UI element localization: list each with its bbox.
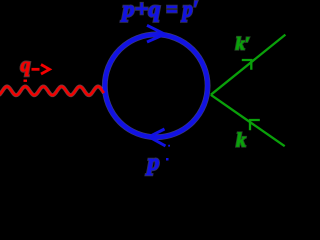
svg-text:= p′: = p′	[166, 0, 199, 23]
svg-text:k′: k′	[236, 34, 251, 54]
svg-text:k: k	[236, 130, 246, 152]
svg-text:p+q: p+q	[120, 0, 160, 23]
bottom arrow on loop	[149, 129, 166, 146]
top arrow on loop	[147, 25, 165, 42]
fermion loop halo	[105, 34, 208, 137]
arrow head of q label	[41, 65, 50, 75]
arrow tick on k line	[250, 120, 260, 130]
stray dot right of p	[166, 158, 169, 161]
svg-text:q: q	[21, 55, 31, 77]
svg-text:p: p	[146, 150, 160, 176]
outgoing line k (green, lower)	[211, 95, 285, 146]
arrow dash of q label	[32, 68, 40, 71]
stray dot near lower barb	[168, 145, 170, 147]
fermion loop (blue circle)	[105, 34, 208, 137]
wire: photon end segment over circle edge	[96, 87, 104, 93]
outgoing line k' (green, upper)	[211, 35, 286, 95]
arrow tick on k' line	[242, 60, 252, 70]
photon line q (red wavy) halo	[0, 87, 104, 96]
photon line q (red wavy)	[0, 87, 104, 96]
q descender tail blob	[24, 80, 28, 82]
